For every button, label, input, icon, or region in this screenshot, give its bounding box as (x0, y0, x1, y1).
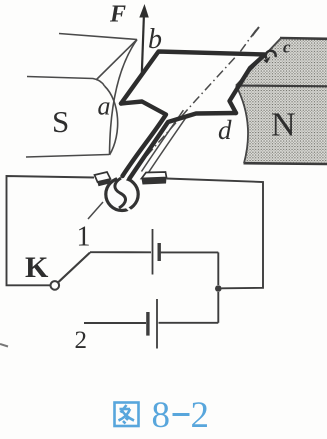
svg-text:2: 2 (191, 395, 210, 436)
svg-text:N: N (271, 107, 296, 144)
svg-text:S: S (52, 104, 69, 139)
svg-text:b: b (148, 24, 162, 55)
svg-text:F: F (109, 2, 126, 28)
svg-text:d: d (218, 115, 232, 145)
svg-text:a: a (98, 92, 111, 121)
svg-text:1: 1 (77, 222, 91, 253)
svg-text:c: c (283, 37, 291, 56)
svg-text:K: K (25, 251, 49, 284)
svg-text:8: 8 (152, 395, 171, 436)
svg-text:2: 2 (75, 327, 88, 354)
